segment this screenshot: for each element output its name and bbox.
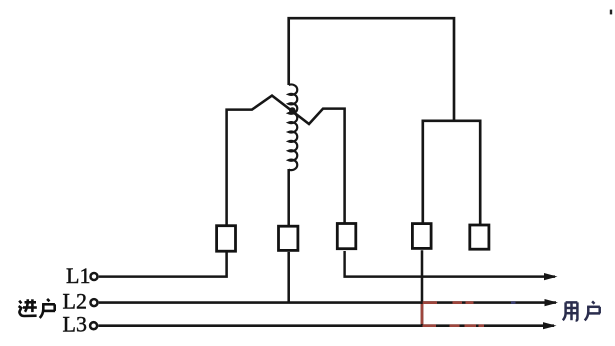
wire L2 line (incoming to user) bbox=[99, 301, 556, 304]
inductor voltage coil bbox=[289, 84, 298, 170]
red overlay vertical between L2 and L3 bbox=[421, 304, 424, 324]
terminal circle L3 bbox=[90, 322, 97, 329]
svg-text:L3: L3 bbox=[63, 312, 87, 337]
arrow L3 bbox=[543, 322, 557, 329]
terminal circle L1 bbox=[91, 273, 98, 280]
red overlay dashes on L3 bbox=[423, 324, 485, 327]
junction dot on coil crossing bbox=[289, 107, 296, 114]
wire voltage-coil top loop (from coil top up, across, down to link bar) bbox=[289, 18, 454, 121]
current coil zigzag wire (box1 up, across peak and valley, down to box3) bbox=[227, 96, 345, 225]
wire box2 down to L2 bbox=[287, 252, 290, 303]
wire L3 line (incoming to user) bbox=[98, 324, 554, 327]
wire right link bar to box4 and box5 bbox=[423, 121, 480, 225]
用 bbox=[563, 302, 578, 320]
label 进户 (incoming) drawn as strokes bbox=[19, 299, 56, 318]
户 bbox=[40, 299, 55, 318]
wire L1 out: box3 down and right to user bbox=[345, 251, 555, 277]
进 bbox=[19, 299, 37, 316]
terminal box 2 bbox=[279, 226, 298, 250]
arrow L1 bbox=[544, 273, 558, 280]
wire coil bottom to terminal box2 bbox=[287, 169, 290, 225]
svg-text:L1: L1 bbox=[66, 263, 90, 288]
terminal box 3 bbox=[337, 224, 356, 249]
red overlay dashes on L2 bbox=[423, 301, 474, 304]
terminal box 1 bbox=[217, 226, 236, 252]
wire L1 in: terminal circle to box1 bbox=[99, 252, 227, 276]
navy dash on L2 bbox=[511, 301, 516, 304]
terminal circle L2 bbox=[91, 299, 98, 306]
户 bbox=[585, 301, 600, 320]
wire box4 down to L3 bbox=[421, 250, 424, 326]
label 用户 (user) drawn as strokes bbox=[563, 301, 600, 320]
terminal box 4 bbox=[412, 224, 431, 249]
arrow L2 bbox=[545, 299, 559, 306]
svg-text:L2: L2 bbox=[63, 289, 87, 314]
terminal box 5 bbox=[470, 225, 489, 249]
scan speck top right bbox=[610, 10, 612, 15]
